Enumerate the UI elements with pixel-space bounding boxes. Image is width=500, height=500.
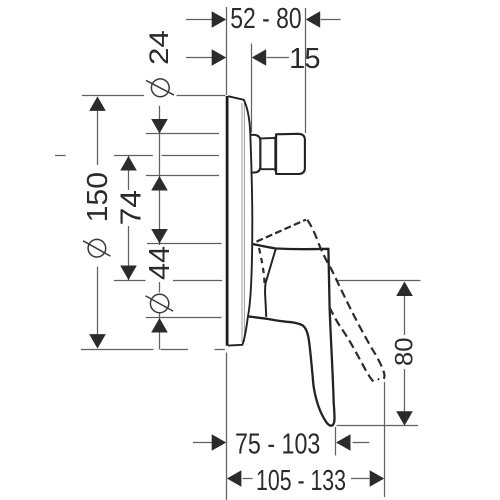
dimension 15 right arrow: [252, 49, 267, 66]
svg-text:24: 24: [144, 30, 174, 65]
extension line wall-plane top (x=226): [226, 7, 228, 95]
dimension D24 lower arrow: [151, 176, 168, 191]
svg-text:75 - 103: 75 - 103: [235, 429, 320, 461]
svg-text:105 - 133: 105 - 133: [256, 465, 346, 497]
dimension D24 upper arrow: [151, 119, 168, 134]
extension line plate top (y=96): [82, 95, 226, 97]
dimension 15 left arrow: [212, 49, 227, 66]
extension line hub bottom (y=317.6): [146, 317, 222, 319]
dimension 74 top arrow: [120, 156, 137, 171]
diverter knob neck: [260, 137, 275, 172]
lever hub bottom edge: [248, 316, 267, 318]
dimension 80 line (x=404): [404, 296, 406, 412]
svg-text:74: 74: [116, 190, 148, 225]
dimension 80 top arrow: [396, 282, 413, 297]
dimension 52-80 line: [186, 19, 341, 21]
dimension D24/D44 shared line (x=159.7): [159, 106, 161, 350]
dashed raised lever inner edge: [329, 307, 376, 383]
dimension D44 lower arrow: [151, 318, 168, 333]
dimension 105-133 line: [243, 478, 370, 480]
dimension D24 diameter symbol: [146, 79, 174, 97]
extension line wall-plane bottom (x=226): [226, 353, 228, 500]
svg-text:5: 5: [304, 43, 320, 75]
dimension 52-80 right arrow: [306, 11, 321, 28]
extension line below dashed lever tip for 105-133 (x=384.3): [384, 382, 386, 497]
wall plate outline: [228, 96, 252, 345]
dimension D150 top arrow: [89, 96, 106, 111]
extension line knob top (y=133.5): [146, 133, 219, 135]
extension line lever tip for 80 dim (y=425.6): [337, 425, 419, 427]
dimension D150 bottom arrow: [89, 334, 106, 349]
dimension 74 line (x=128.5): [128, 156, 130, 280]
dimension 105-133 left arrow: [227, 470, 242, 487]
svg-text:150: 150: [82, 172, 114, 222]
extension line knob bottom (y=175): [146, 175, 219, 177]
svg-text:1: 1: [289, 43, 305, 75]
dashed raised lever top edge: [257, 220, 307, 242]
dimension 75-103 right arrow: [336, 434, 351, 451]
dimension D150 diameter symbol: [83, 239, 110, 257]
dimension 75-103 line: [193, 442, 369, 444]
dimension 15 line: [186, 57, 289, 59]
svg-text:52 - 80: 52 - 80: [230, 3, 301, 35]
extension line knob face for 52-80 dim (x=306): [305, 8, 307, 133]
dashed raised lever hub edge: [259, 248, 265, 287]
extension line hub top (y=243.5): [147, 243, 222, 245]
extension line raised lever for 80 dim (y=280.2): [336, 280, 421, 282]
dimension 80 bottom arrow: [396, 411, 413, 426]
lever handle outline: [248, 244, 335, 426]
extension line plate bottom (y=350): [81, 349, 225, 351]
diverter knob bulb: [251, 135, 261, 173]
extension line plate front for 15 dim (x=252): [251, 44, 253, 133]
wall plate back edge (thick): [226, 96, 229, 346]
dimension 75-103 left arrow: [212, 434, 227, 451]
diverter knob cap: [276, 134, 305, 174]
svg-text:80: 80: [391, 338, 419, 367]
extension line knob axis (y=155.3): [55, 155, 219, 157]
dimension D44 upper arrow: [151, 229, 168, 244]
dimension D44 diameter symbol: [146, 294, 174, 312]
dashed raised lever outer edge: [307, 220, 384, 380]
lever hub internal edge: [265, 249, 276, 317]
dimension 52-80 left arrow: [212, 11, 227, 28]
extension line below lever tip for 75-103 (x=335.5): [335, 427, 337, 456]
dimension 105-133 right arrow: [370, 470, 385, 487]
svg-text:44: 44: [144, 246, 176, 280]
extension line hub axis (y=280.3): [114, 280, 222, 282]
wall plate face thin contour lines: [242, 103, 244, 342]
dimension 74 bottom arrow: [120, 266, 137, 281]
dimension D150 line (x=97): [97, 111, 99, 335]
